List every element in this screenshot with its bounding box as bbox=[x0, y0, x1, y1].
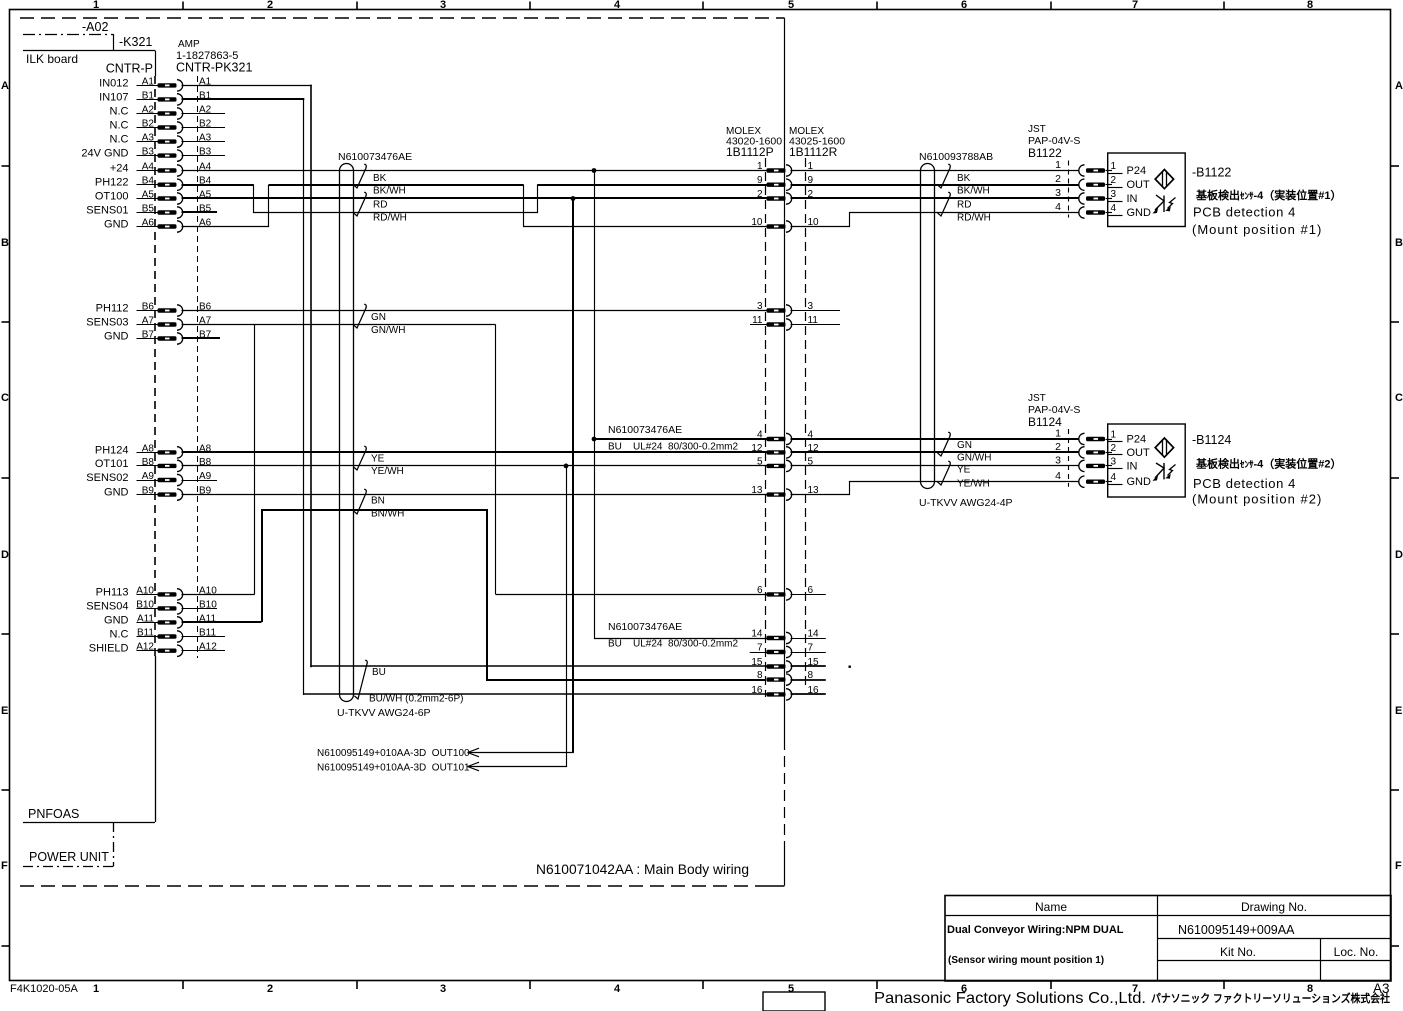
svg-text:BU: BU bbox=[372, 667, 386, 678]
wire MOLEX pin12 to JST B1124 pin2 bbox=[791, 451, 1080, 453]
svg-text:3: 3 bbox=[440, 983, 446, 995]
sensor -B1124 description bbox=[1192, 433, 1342, 507]
svg-text:-A02: -A02 bbox=[82, 20, 108, 34]
svg-text:(Mount position #1): (Mount position #1) bbox=[1192, 222, 1322, 237]
svg-text:IN: IN bbox=[1127, 193, 1138, 205]
MOLEX pin 9 bbox=[757, 175, 814, 190]
svg-text:1: 1 bbox=[1055, 428, 1061, 440]
svg-text:C: C bbox=[1, 392, 9, 404]
wire MOLEX pin10 to JST B1122 pin4 bbox=[791, 213, 1080, 227]
svg-text:12: 12 bbox=[751, 443, 763, 454]
svg-text:JST: JST bbox=[1028, 393, 1046, 404]
svg-text:8: 8 bbox=[1307, 0, 1313, 11]
CNTR pin B2 (N.C) bbox=[110, 119, 225, 134]
svg-text:YE/WH: YE/WH bbox=[371, 466, 404, 477]
wire MOLEX pin15 right stub bbox=[791, 665, 826, 667]
svg-text:4: 4 bbox=[614, 0, 621, 11]
svg-text:YE: YE bbox=[371, 454, 385, 465]
svg-text:5: 5 bbox=[757, 456, 763, 467]
svg-text:3: 3 bbox=[757, 301, 763, 312]
MOLEX pin 4 bbox=[757, 430, 814, 445]
connector MOLEX 1B1112P labels bbox=[726, 126, 782, 159]
cable N610093788AB capsule (sensor harness) bbox=[919, 151, 993, 489]
svg-text:GN/WH: GN/WH bbox=[371, 325, 405, 336]
cable2 marker RD pair bbox=[937, 192, 990, 223]
svg-text:D: D bbox=[1, 549, 9, 561]
wire A4 +24 to MOLEX pin1 bbox=[182, 170, 767, 172]
arrow OUT100 reference bbox=[317, 748, 479, 759]
svg-text:GN: GN bbox=[957, 440, 972, 451]
svg-text:3: 3 bbox=[1055, 454, 1061, 466]
svg-text:B: B bbox=[1395, 237, 1403, 249]
svg-text:SENS03: SENS03 bbox=[86, 317, 128, 329]
CNTR pin A4 (+24) bbox=[110, 162, 212, 177]
svg-text:GND: GND bbox=[104, 331, 129, 343]
svg-text:14: 14 bbox=[808, 629, 820, 640]
svg-text:PNFOAS: PNFOAS bbox=[28, 807, 79, 821]
svg-text:RD: RD bbox=[373, 200, 387, 211]
svg-text:PH112: PH112 bbox=[96, 303, 129, 315]
svg-text:2: 2 bbox=[1055, 441, 1061, 453]
connector CNTR dashed separators bbox=[155, 76, 198, 658]
wire MOLEX pin3 right stub bbox=[791, 310, 841, 312]
connector JST B1122 dashed separator bbox=[1068, 161, 1070, 218]
connector JST B1122 labels bbox=[1028, 124, 1080, 160]
svg-text:7: 7 bbox=[757, 643, 763, 654]
wire B1 IN107 to MOLEX pin16 bbox=[182, 99, 767, 695]
wire A6 GND (swap to MOLEX pin10) bbox=[182, 185, 767, 228]
svg-text:BK: BK bbox=[957, 173, 971, 184]
title block bbox=[945, 896, 1391, 982]
svg-text:BK/WH: BK/WH bbox=[957, 186, 990, 197]
cable2 marker GN pair bbox=[937, 432, 991, 463]
svg-text:3: 3 bbox=[1111, 189, 1117, 200]
MOLEX pin 10 bbox=[751, 217, 819, 232]
wire MOLEX pin7 left stub bbox=[750, 652, 767, 654]
svg-text:ILK board: ILK board bbox=[26, 52, 78, 66]
wire MOLEX pin11 right stub bbox=[791, 324, 841, 326]
svg-text:N610095149+010AA-3D OUT100: N610095149+010AA-3D OUT100 bbox=[317, 748, 470, 759]
svg-text:Name: Name bbox=[1035, 900, 1067, 914]
svg-text:2: 2 bbox=[757, 189, 763, 200]
MOLEX pin 6 bbox=[757, 585, 814, 600]
svg-text:D: D bbox=[1395, 549, 1403, 561]
svg-text:PH124: PH124 bbox=[95, 444, 129, 456]
MOLEX pin 8 bbox=[757, 670, 814, 685]
node OT100 branch bbox=[571, 196, 576, 201]
svg-text:A: A bbox=[1, 80, 9, 92]
svg-text:5: 5 bbox=[788, 983, 794, 995]
svg-text:基板検出ｾﾝｻ-4（実装位置#1）: 基板検出ｾﾝｻ-4（実装位置#1） bbox=[1195, 188, 1342, 202]
svg-text:B4: B4 bbox=[142, 176, 155, 187]
JST B1124 pin 1 bbox=[1055, 428, 1105, 445]
wire OT100 vertical branch to OUT100 arrow bbox=[468, 199, 574, 753]
svg-text:N610071042AA : Main Body wirin: N610071042AA : Main Body wiring bbox=[536, 861, 749, 877]
JST B1122 pin 2 bbox=[1055, 173, 1105, 190]
svg-text:E: E bbox=[1, 705, 8, 717]
svg-text:SHIELD: SHIELD bbox=[89, 643, 129, 655]
board A02 boundary bbox=[23, 20, 114, 50]
wire MOLEX pin11 left stub bbox=[750, 324, 767, 326]
svg-text:GND: GND bbox=[104, 614, 129, 626]
CNTR pin B3 (24V GND) bbox=[81, 147, 225, 162]
svg-text:7: 7 bbox=[1132, 0, 1138, 11]
MOLEX pin 1 bbox=[757, 161, 814, 176]
svg-text:1: 1 bbox=[1111, 430, 1117, 441]
svg-text:IN: IN bbox=[1127, 460, 1138, 472]
svg-text:N610073476AE: N610073476AE bbox=[608, 424, 682, 436]
board K321 boundary bbox=[23, 35, 156, 76]
svg-text:(Sensor wiring mount position: (Sensor wiring mount position 1) bbox=[948, 955, 1104, 966]
svg-text:U-TKVV AWG24-4P: U-TKVV AWG24-4P bbox=[919, 497, 1013, 509]
wire A1 IN012 to MOLEX pin15 bbox=[182, 85, 767, 668]
wire MOLEX pin6 right stub bbox=[791, 594, 826, 596]
connector CNTR-P / CNTR-PK321 labels bbox=[106, 39, 253, 76]
svg-text:2: 2 bbox=[1055, 173, 1061, 185]
JST B1122 pin 4 bbox=[1055, 201, 1105, 218]
CNTR pin A6 (GND) bbox=[104, 218, 212, 233]
svg-text:BN: BN bbox=[371, 496, 385, 507]
svg-text:SENS04: SENS04 bbox=[86, 600, 128, 612]
svg-text:A: A bbox=[1395, 80, 1403, 92]
svg-text:1B1112R: 1B1112R bbox=[789, 145, 838, 159]
svg-text:CNTR-P: CNTR-P bbox=[106, 62, 153, 76]
svg-text:U-TKVV AWG24-6P: U-TKVV AWG24-6P bbox=[337, 707, 431, 719]
svg-text:Loc. No.: Loc. No. bbox=[1334, 945, 1379, 959]
svg-text:F4K1020-05A: F4K1020-05A bbox=[10, 983, 79, 995]
svg-text:OT101: OT101 bbox=[95, 458, 129, 470]
cable marker YE pair bbox=[353, 446, 403, 477]
connector JST B1124 dashed separator bbox=[1068, 429, 1070, 487]
wire OT101 vertical branch to OUT101 arrow bbox=[468, 466, 567, 767]
JST B1124 pin 4 bbox=[1055, 470, 1105, 487]
stray dot bbox=[849, 666, 851, 668]
sensor -B1124 photo-receiver symbol bbox=[1153, 463, 1176, 481]
label N610073476AE wire to pin4 bbox=[608, 424, 739, 453]
svg-text:3: 3 bbox=[1111, 456, 1117, 467]
label N610073476AE wire to pin14 bbox=[608, 621, 739, 650]
svg-text:PCB detection 4: PCB detection 4 bbox=[1193, 205, 1296, 220]
svg-text:1: 1 bbox=[757, 161, 763, 172]
MOLEX pin 7 bbox=[757, 643, 814, 658]
cable marker GN pair bbox=[353, 304, 405, 336]
svg-text:9: 9 bbox=[757, 175, 763, 186]
MOLEX pin 5 bbox=[757, 456, 814, 471]
svg-text:RD/WH: RD/WH bbox=[957, 213, 991, 224]
svg-text:13: 13 bbox=[751, 485, 763, 496]
machine boundary dashed outline bbox=[20, 18, 785, 886]
svg-text:1: 1 bbox=[1055, 159, 1061, 171]
svg-text:IN012: IN012 bbox=[99, 77, 128, 89]
svg-text:Panasonic Factory Solutions Co: Panasonic Factory Solutions Co.,Ltd. bbox=[874, 990, 1146, 1007]
svg-text:PH122: PH122 bbox=[95, 177, 129, 189]
CNTR pin B7 (GND) bbox=[104, 330, 220, 345]
svg-text:16: 16 bbox=[751, 685, 763, 696]
wire bridge drop to MOLEX pin6 bbox=[496, 325, 767, 595]
svg-text:RD/WH: RD/WH bbox=[373, 213, 407, 224]
svg-text:15: 15 bbox=[751, 657, 763, 668]
svg-text:PH113: PH113 bbox=[96, 586, 129, 598]
CNTR pin A5 (OT100) bbox=[95, 190, 212, 205]
CNTR pin A9 (SENS02) bbox=[86, 471, 217, 486]
wire MOLEX pin16 right stub bbox=[791, 693, 826, 695]
svg-text:PCB detection 4: PCB detection 4 bbox=[1193, 476, 1296, 491]
footer stamp box bbox=[763, 992, 825, 1011]
arrow OUT101 reference bbox=[317, 762, 479, 773]
CNTR pin B1 (IN107) bbox=[99, 90, 212, 105]
MOLEX pin 16 bbox=[751, 685, 819, 700]
svg-text:P24: P24 bbox=[1127, 165, 1147, 177]
svg-text:N.C: N.C bbox=[110, 134, 129, 146]
wire A8 PH124 to MOLEX pin12 bbox=[182, 451, 767, 453]
MOLEX pin 15 bbox=[751, 657, 819, 672]
svg-text:7: 7 bbox=[808, 643, 814, 654]
wire MOLEX pin4 to JST B1124 pin1 bbox=[791, 438, 1080, 440]
svg-text:BU UL#24 80/300-0.2mm2: BU UL#24 80/300-0.2mm2 bbox=[608, 442, 739, 453]
cable marker BK pair bbox=[353, 164, 405, 196]
svg-text:CNTR-PK321: CNTR-PK321 bbox=[176, 61, 252, 75]
svg-text:4: 4 bbox=[1111, 472, 1117, 483]
CNTR pin B11 (N.C) bbox=[110, 628, 225, 643]
svg-text:Kit No.: Kit No. bbox=[1220, 945, 1256, 959]
MOLEX pin 3 bbox=[757, 301, 814, 316]
svg-text:C: C bbox=[1395, 392, 1403, 404]
svg-text:GN/WH: GN/WH bbox=[957, 453, 991, 464]
svg-text:GN: GN bbox=[371, 312, 386, 323]
wire MOLEX pin1 to JST B1122 pin1 bbox=[791, 170, 1080, 172]
svg-text:E: E bbox=[1395, 705, 1402, 717]
svg-text:BN/WH: BN/WH bbox=[371, 509, 404, 520]
svg-text:GND: GND bbox=[1127, 207, 1152, 219]
wire MOLEX pin14 right stub bbox=[791, 638, 826, 640]
svg-text:BU/WH (0.2mm2-6P): BU/WH (0.2mm2-6P) bbox=[369, 694, 463, 705]
wire B9 GND to MOLEX pin13 bbox=[182, 494, 767, 496]
svg-text:P24: P24 bbox=[1127, 434, 1147, 446]
svg-text:1: 1 bbox=[1111, 161, 1117, 172]
CNTR pin B10 (SENS04) bbox=[86, 599, 217, 614]
svg-text:N.C: N.C bbox=[110, 106, 129, 118]
wire B8 OT101 to MOLEX pin5 bbox=[182, 465, 767, 467]
svg-text:YE: YE bbox=[957, 465, 971, 476]
sensor -B1124 reflector symbol bbox=[1155, 438, 1173, 457]
MOLEX pin 2 bbox=[757, 189, 814, 204]
svg-text:N610073476AE: N610073476AE bbox=[338, 151, 412, 163]
svg-text:B: B bbox=[1, 237, 9, 249]
cable N610073476AE capsule (main harness) bbox=[338, 151, 412, 702]
JST B1122 pin 1 bbox=[1055, 159, 1105, 176]
sensor -B1122 description bbox=[1192, 166, 1342, 238]
sensor -B1122 photo-receiver symbol bbox=[1153, 195, 1176, 214]
svg-text:A12: A12 bbox=[199, 642, 217, 653]
svg-text:AMP: AMP bbox=[178, 39, 200, 50]
wire MOLEX pin9 to JST B1122 pin2 bbox=[791, 184, 1080, 186]
svg-text:OT100: OT100 bbox=[95, 191, 129, 203]
CNTR pin B4 (PH122) bbox=[95, 176, 212, 191]
svg-text:GND: GND bbox=[104, 487, 129, 499]
svg-text:F: F bbox=[1, 860, 8, 872]
footer company name bbox=[874, 990, 1390, 1007]
PNFOAS block bbox=[23, 656, 156, 823]
wire A5 OT100 to MOLEX pin2 bbox=[182, 197, 767, 199]
svg-text:6: 6 bbox=[961, 0, 967, 11]
svg-text:-B1122: -B1122 bbox=[1192, 166, 1231, 180]
svg-text:OUT: OUT bbox=[1127, 179, 1151, 191]
CNTR pin A3 (N.C) bbox=[110, 133, 225, 148]
svg-text:Drawing No.: Drawing No. bbox=[1241, 900, 1307, 914]
wire MOLEX pin7 right stub bbox=[791, 652, 826, 654]
sensor -B1122 box bbox=[1106, 153, 1186, 227]
wire B4 PH122 (swap to MOLEX pin9) bbox=[182, 185, 767, 213]
svg-text:B1122: B1122 bbox=[1028, 146, 1062, 160]
svg-text:POWER UNIT: POWER UNIT bbox=[29, 850, 109, 864]
svg-text:N.C: N.C bbox=[110, 120, 129, 132]
svg-text:OUT: OUT bbox=[1127, 447, 1151, 459]
sensor -B1124 box bbox=[1106, 424, 1186, 497]
svg-text:+24: +24 bbox=[110, 163, 129, 175]
cable2 marker YE pair bbox=[937, 461, 989, 489]
svg-text:1: 1 bbox=[93, 0, 99, 11]
svg-text:B3: B3 bbox=[199, 147, 212, 158]
wire A10 PH113 riser to A7 bridge bbox=[182, 325, 255, 595]
svg-text:N610095149+010AA-3D OUT101: N610095149+010AA-3D OUT101 bbox=[317, 763, 470, 774]
JST B1122 pin 3 bbox=[1055, 187, 1105, 204]
MOLEX pin 11 bbox=[752, 315, 818, 330]
svg-text:GND: GND bbox=[1127, 476, 1152, 488]
svg-text:-B1124: -B1124 bbox=[1192, 433, 1231, 447]
svg-text:4: 4 bbox=[1055, 470, 1061, 482]
svg-text:6: 6 bbox=[757, 585, 763, 596]
CNTR pin A1 (IN012) bbox=[99, 76, 212, 91]
CNTR pin A2 (N.C) bbox=[110, 105, 225, 120]
cable marker BU pair bbox=[337, 660, 463, 719]
MOLEX pin 12 bbox=[751, 443, 819, 458]
CNTR pin B5 (SENS01) bbox=[86, 204, 217, 219]
svg-text:B8: B8 bbox=[142, 457, 155, 468]
POWER UNIT block bbox=[23, 822, 114, 867]
svg-text:2: 2 bbox=[267, 983, 273, 995]
svg-text:BU UL#24 80/300-0.2mm2: BU UL#24 80/300-0.2mm2 bbox=[608, 639, 739, 650]
wire MOLEX pin13 to JST B1124 pin4 bbox=[791, 482, 1080, 495]
svg-text:F: F bbox=[1395, 860, 1402, 872]
svg-text:N610095149+009AA: N610095149+009AA bbox=[1178, 923, 1295, 937]
svg-text:4: 4 bbox=[614, 983, 621, 995]
svg-text:N.C: N.C bbox=[110, 629, 129, 641]
cable2 marker BK pair bbox=[937, 164, 989, 196]
connector JST B1124 labels bbox=[1028, 393, 1080, 429]
svg-text:RD: RD bbox=[957, 200, 971, 211]
svg-text:14: 14 bbox=[751, 629, 763, 640]
svg-text:4: 4 bbox=[757, 430, 763, 441]
svg-text:10: 10 bbox=[751, 217, 763, 228]
node +24 branch at A4 row bbox=[592, 168, 597, 173]
svg-text:A3: A3 bbox=[199, 133, 212, 144]
wire +24 vertical branch to pins 4 and 14 bbox=[592, 171, 767, 639]
CNTR pin A7 (SENS03) bbox=[86, 316, 211, 331]
wire MOLEX pin2 to JST B1122 pin3 bbox=[791, 197, 1080, 199]
wire B6 PH112 to MOLEX pin3 bbox=[182, 310, 767, 312]
node OT101 branch bbox=[564, 464, 569, 469]
svg-text:1B1112P: 1B1112P bbox=[726, 145, 774, 159]
svg-text:N610093788AB: N610093788AB bbox=[919, 151, 993, 163]
svg-text:BK: BK bbox=[373, 173, 387, 184]
MOLEX pin 13 bbox=[751, 485, 819, 500]
svg-text:3: 3 bbox=[1055, 187, 1061, 199]
svg-text:1: 1 bbox=[93, 983, 99, 995]
svg-text:A12: A12 bbox=[136, 642, 154, 653]
JST B1124 pin 2 bbox=[1055, 441, 1105, 458]
svg-text:SENS01: SENS01 bbox=[86, 205, 128, 217]
svg-text:3: 3 bbox=[440, 0, 446, 11]
CNTR pin A11 (GND) bbox=[104, 613, 216, 628]
wire A11 GND loop to MOLEX pin8 bbox=[182, 510, 767, 680]
svg-text:2: 2 bbox=[1111, 175, 1117, 186]
CNTR pin A10 (PH113) bbox=[96, 585, 218, 600]
wire MOLEX pin8 right stub bbox=[791, 679, 826, 681]
svg-text:4: 4 bbox=[1055, 201, 1061, 213]
svg-text:BK/WH: BK/WH bbox=[373, 186, 406, 197]
svg-text:5: 5 bbox=[788, 0, 794, 11]
CNTR pin A8 (PH124) bbox=[95, 443, 212, 458]
CNTR pin B6 (PH112) bbox=[96, 302, 212, 317]
svg-text:基板検出ｾﾝｻ-4（実装位置#2）: 基板検出ｾﾝｻ-4（実装位置#2） bbox=[1195, 457, 1342, 471]
svg-text:B8: B8 bbox=[199, 457, 212, 468]
svg-text:24V GND: 24V GND bbox=[81, 148, 128, 160]
svg-text:2: 2 bbox=[1111, 443, 1117, 454]
sensor -B1122 reflector symbol bbox=[1155, 170, 1173, 189]
connector MOLEX 1B1112R labels bbox=[789, 126, 845, 159]
svg-text:8: 8 bbox=[757, 670, 763, 681]
wire MOLEX pin5 to JST B1124 pin3 bbox=[791, 465, 1080, 467]
svg-text:4: 4 bbox=[1111, 203, 1117, 214]
connector MOLEX dashed separators bbox=[766, 158, 806, 697]
svg-text:(Mount position #2): (Mount position #2) bbox=[1192, 492, 1322, 507]
svg-text:GND: GND bbox=[104, 219, 129, 231]
CNTR pin B8 (OT101) bbox=[95, 457, 212, 472]
svg-text:YE/WH: YE/WH bbox=[957, 479, 990, 490]
JST B1124 pin 3 bbox=[1055, 454, 1105, 471]
cable marker RD pair bbox=[353, 192, 406, 223]
wire A7 SENS03 bridge bbox=[182, 324, 496, 326]
CNTR pin B9 (GND) bbox=[104, 486, 212, 501]
cable marker BN pair bbox=[353, 489, 404, 519]
CNTR pin A12 (SHIELD) bbox=[89, 642, 225, 657]
svg-text:IN107: IN107 bbox=[99, 91, 128, 103]
svg-text:N610073476AE: N610073476AE bbox=[608, 621, 682, 633]
svg-text:JST: JST bbox=[1028, 124, 1046, 135]
svg-text:Dual Conveyor Wiring:NPM DUAL: Dual Conveyor Wiring:NPM DUAL bbox=[947, 924, 1124, 936]
svg-text:パナソニック ファクトリーソリューションズ株式会社: パナソニック ファクトリーソリューションズ株式会社 bbox=[1151, 991, 1390, 1005]
MOLEX pin 14 bbox=[751, 629, 819, 644]
svg-text:-K321: -K321 bbox=[119, 35, 152, 49]
svg-text:2: 2 bbox=[267, 0, 273, 11]
svg-text:SENS02: SENS02 bbox=[86, 472, 128, 484]
